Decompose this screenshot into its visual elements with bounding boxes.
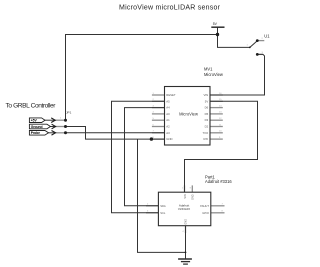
svg-text:RXI: RXI — [204, 137, 209, 141]
svg-text:5V: 5V — [205, 99, 209, 103]
svg-text:Probe: Probe — [31, 131, 40, 135]
svg-text:GND: GND — [192, 194, 195, 200]
svg-text:JP1: JP1 — [66, 111, 72, 115]
svg-text:D2: D2 — [205, 125, 209, 129]
svg-text:A3: A3 — [166, 131, 170, 135]
svg-text:A0: A0 — [166, 112, 170, 116]
svg-text:GPIO: GPIO — [202, 211, 209, 215]
svg-text:MicroView microLIDAR sensor: MicroView microLIDAR sensor — [119, 5, 221, 12]
svg-text:A1: A1 — [166, 118, 170, 122]
svg-text:VIN: VIN — [204, 93, 209, 97]
svg-text:U1: U1 — [264, 33, 270, 38]
svg-text:MicroView: MicroView — [179, 111, 198, 116]
svg-text:XSHUT: XSHUT — [200, 204, 209, 208]
svg-text:Ground: Ground — [31, 125, 43, 129]
svg-text:A2: A2 — [166, 125, 170, 129]
svg-text:5V: 5V — [213, 22, 218, 26]
svg-text:A4: A4 — [166, 106, 170, 110]
svg-text:VL53L0X: VL53L0X — [178, 207, 190, 211]
svg-text:Adafruit #3316: Adafruit #3316 — [205, 179, 232, 184]
svg-text:A5: A5 — [166, 99, 170, 103]
svg-text:+5V: +5V — [31, 119, 38, 123]
svg-text:D6: D6 — [205, 106, 209, 110]
svg-text:TXO: TXO — [202, 131, 209, 135]
svg-text:To GRBL Controller: To GRBL Controller — [6, 102, 57, 109]
svg-text:MicroView: MicroView — [204, 72, 223, 77]
svg-text:SCL: SCL — [160, 211, 166, 215]
svg-text:D3: D3 — [205, 118, 209, 122]
svg-text:GND: GND — [166, 137, 172, 141]
svg-text:SDA: SDA — [160, 204, 166, 208]
svg-text:GND: GND — [184, 219, 187, 225]
svg-text:VIN: VIN — [184, 194, 187, 198]
svg-text:D5: D5 — [205, 112, 209, 116]
svg-text:RESET: RESET — [166, 93, 176, 97]
